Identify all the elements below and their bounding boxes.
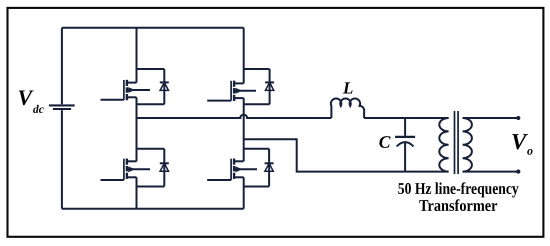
diode D1 [160, 82, 169, 90]
inductor L [331, 98, 364, 118]
node output terminal top [516, 116, 520, 120]
wire M2 loop top [244, 68, 270, 70]
svg-text:Transformer: Transformer [419, 196, 498, 215]
wire secondary top output [463, 117, 519, 119]
wire M1 source to rail [136, 97, 138, 118]
wire M1 loop bottom [137, 103, 165, 105]
diode D2 [265, 82, 274, 90]
wire node B to return [244, 139, 449, 171]
wire diode D1 vertical [163, 69, 165, 104]
wire battery leg upper [61, 28, 63, 104]
wire battery leg lower [61, 110, 63, 209]
transistor Q4 [207, 159, 257, 181]
wire M3 source to bottom rail [136, 177, 138, 209]
wire leg1 drain M1 [136, 28, 138, 83]
svg-text:o: o [527, 144, 533, 158]
wire diode D4 vertical [268, 149, 270, 187]
transformer secondary winding [463, 118, 472, 172]
diode D4 [265, 163, 274, 171]
wire leg1 M3 drain from rail [136, 118, 138, 161]
transformer core [454, 111, 456, 174]
wire M3 loop bottom [137, 186, 165, 188]
svg-text:L: L [342, 79, 353, 98]
battery source Vdc plate long [49, 104, 75, 106]
wire inductor to transformer top [364, 117, 449, 119]
svg-text:dc: dc [33, 104, 44, 116]
wire bottom rail [62, 208, 244, 210]
wire M2 source through hop to node B [243, 98, 245, 161]
node output terminal bottom [516, 170, 520, 174]
wire M4 loop top [244, 148, 269, 150]
wire M4 loop bottom [244, 186, 269, 188]
wire M4 source to bottom rail [243, 177, 245, 209]
diode D3 [160, 163, 169, 171]
svg-text:C: C [379, 132, 391, 152]
transistor Q2 [207, 81, 256, 101]
transformer primary winding [439, 118, 448, 172]
wire M2 loop bottom [244, 103, 270, 105]
wire secondary bottom output [463, 171, 519, 173]
capacitor C [395, 118, 415, 172]
wire leg2 drain M2 [243, 28, 245, 84]
battery source Vdc plate short [53, 108, 71, 110]
wire top rail [62, 27, 244, 29]
wire M1 loop top [137, 68, 165, 70]
wire node A rail with hop over leg2 [137, 115, 332, 118]
svg-text:V: V [511, 129, 528, 154]
transistor Q1 [101, 80, 151, 100]
wire diode D2 vertical [269, 69, 271, 104]
wire M3 loop top [137, 148, 165, 150]
wire diode D3 vertical [163, 149, 165, 187]
transistor Q3 [101, 159, 151, 181]
svg-text:V: V [18, 85, 35, 110]
